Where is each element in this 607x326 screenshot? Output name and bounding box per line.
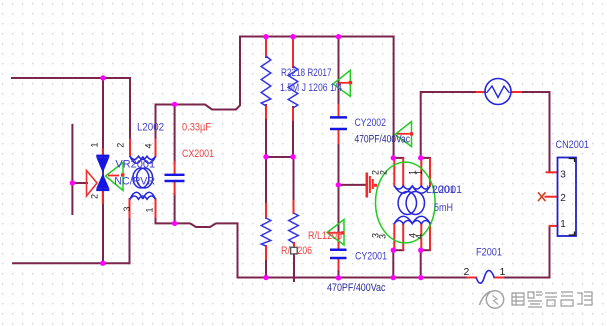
svg-text:0.33µF: 0.33µF xyxy=(182,121,211,133)
svg-text:1: 1 xyxy=(144,207,154,212)
svg-text:2: 2 xyxy=(90,194,100,199)
svg-text:1.5M J 1206 1/4: 1.5M J 1206 1/4 xyxy=(280,82,342,94)
svg-text:3: 3 xyxy=(560,170,566,181)
svg-text:R2218 R2017: R2218 R2017 xyxy=(281,67,332,79)
svg-text:470PF/400Vac: 470PF/400Vac xyxy=(327,282,386,294)
svg-text:R/: R/ xyxy=(281,245,291,257)
svg-text:CN2001: CN2001 xyxy=(556,139,590,151)
svg-text:1: 1 xyxy=(414,170,424,175)
svg-text:CY2001: CY2001 xyxy=(355,250,387,262)
svg-text:L2001: L2001 xyxy=(433,184,463,196)
svg-text:470PF/400Vac: 470PF/400Vac xyxy=(355,134,411,146)
svg-text:L2002: L2002 xyxy=(137,122,164,134)
svg-text:3: 3 xyxy=(122,206,132,211)
svg-text:5mH: 5mH xyxy=(434,202,453,214)
svg-text:1: 1 xyxy=(90,142,100,147)
svg-text:2: 2 xyxy=(560,193,566,204)
svg-text:2: 2 xyxy=(379,170,389,175)
svg-text:CX2001: CX2001 xyxy=(182,148,214,160)
svg-text:F2001: F2001 xyxy=(476,246,502,258)
svg-text:4: 4 xyxy=(144,143,154,148)
svg-text:3: 3 xyxy=(378,234,388,239)
svg-text:CY2002: CY2002 xyxy=(355,117,387,129)
svg-text:NC/RVR: NC/RVR xyxy=(114,176,155,188)
svg-text:VR2001: VR2001 xyxy=(115,158,155,170)
svg-text:206: 206 xyxy=(298,245,313,257)
svg-text:4: 4 xyxy=(414,234,424,239)
svg-text:2: 2 xyxy=(116,143,126,148)
svg-text:1: 1 xyxy=(500,266,506,278)
svg-text:2: 2 xyxy=(464,266,470,278)
svg-text:R/L1206: R/L1206 xyxy=(308,230,342,242)
svg-text:1: 1 xyxy=(560,219,566,230)
